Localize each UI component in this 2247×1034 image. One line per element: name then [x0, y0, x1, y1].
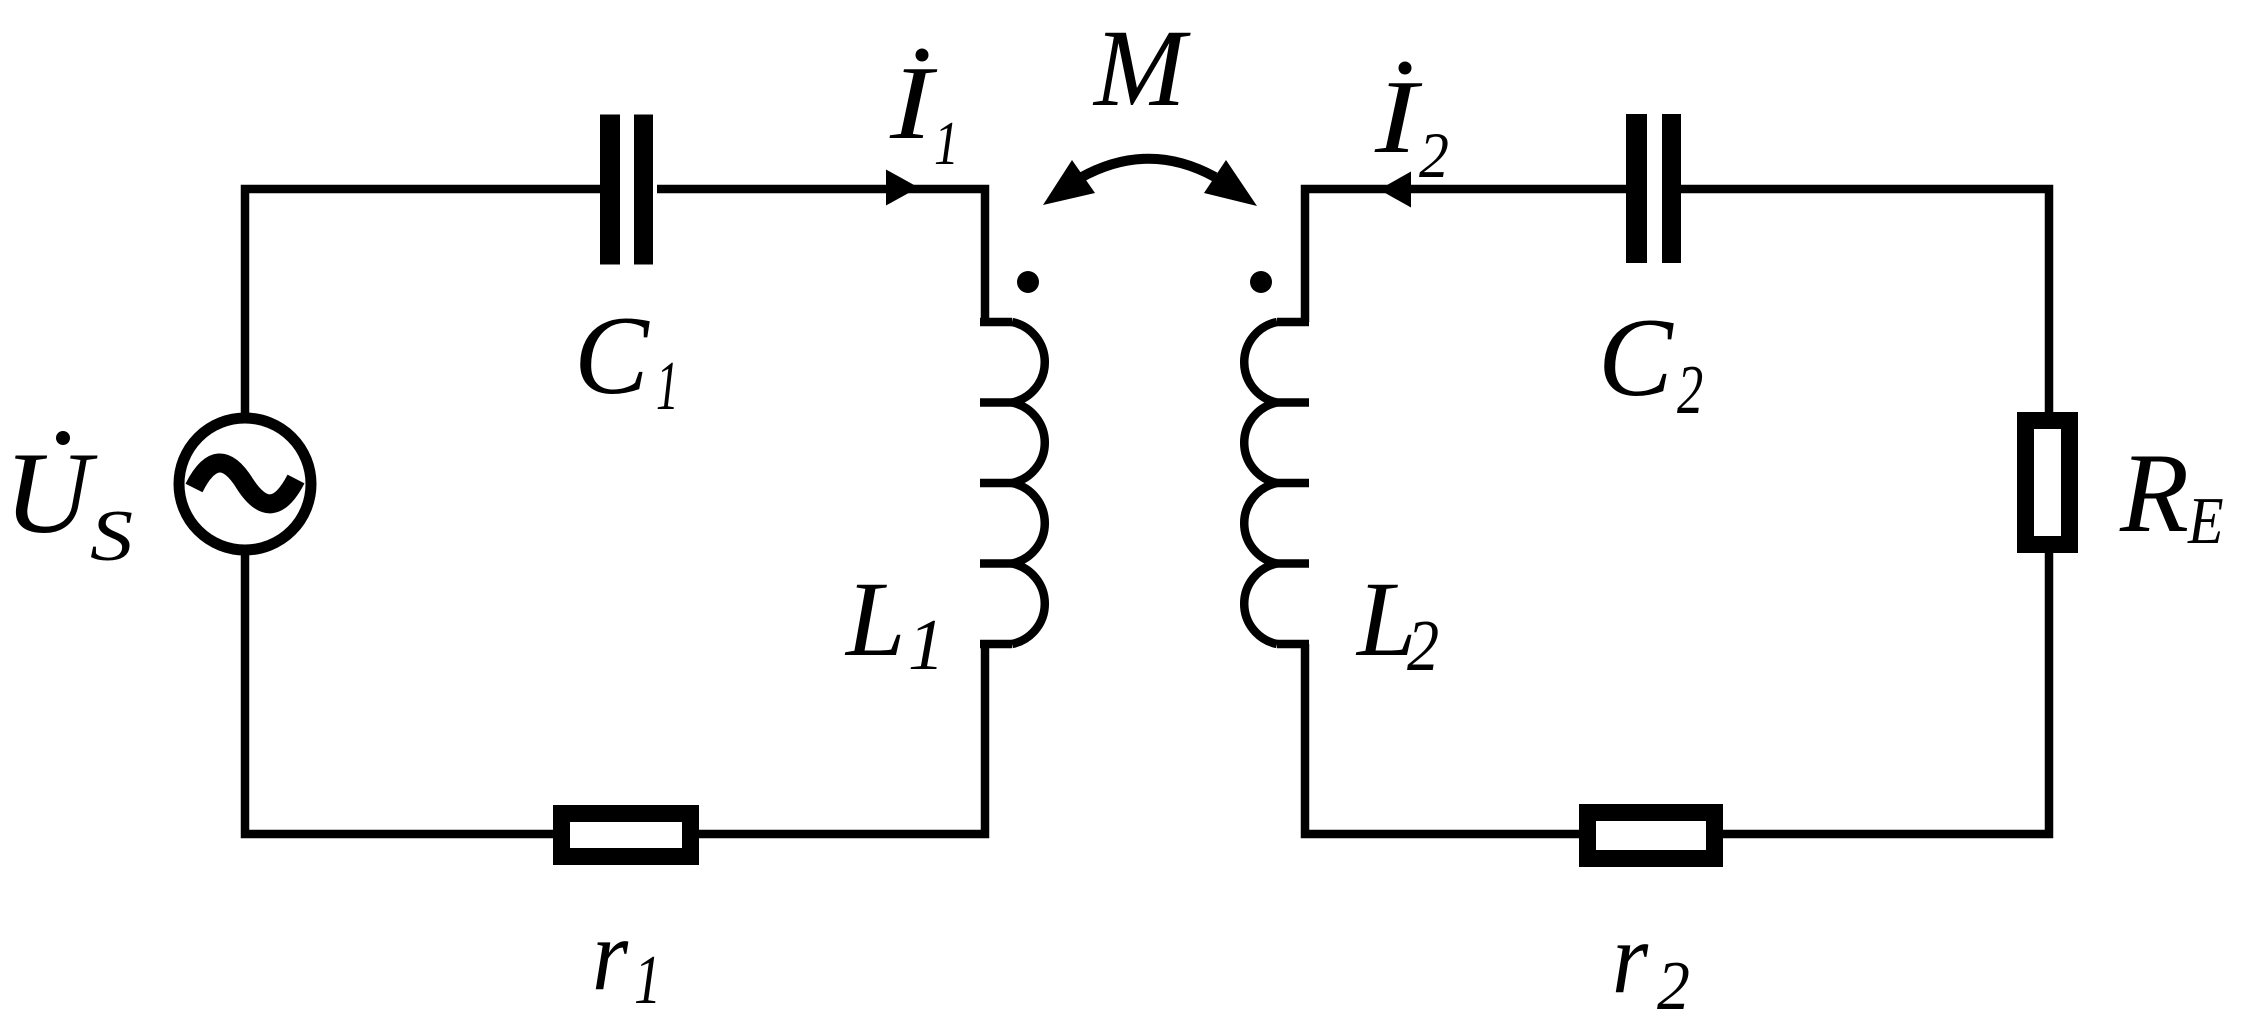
- svg-text:U: U: [4, 428, 98, 558]
- svg-text:M: M: [1092, 7, 1191, 129]
- wire C2 to top-right corner down to RE: [1680, 189, 2049, 416]
- svg-text:C: C: [574, 294, 650, 418]
- resistor r1: [562, 814, 691, 857]
- svg-text:L: L: [844, 561, 906, 679]
- capacitor C2: [1626, 114, 1681, 263]
- inductor L1: [980, 322, 1045, 644]
- svg-text:E: E: [2187, 483, 2224, 558]
- svg-text:S: S: [90, 496, 133, 576]
- wire L1 bottom to bottom-left to source bottom: [245, 551, 985, 834]
- inductor L2: [1244, 322, 1309, 644]
- svg-text:1: 1: [934, 110, 959, 178]
- source sine: [194, 463, 296, 504]
- svg-text:r: r: [592, 899, 629, 1012]
- source US circle: [179, 418, 311, 550]
- current arrow I1: [886, 170, 919, 206]
- svg-text:2: 2: [1407, 605, 1439, 686]
- svg-text:2: 2: [1657, 946, 1690, 1024]
- svg-text:I: I: [1374, 59, 1423, 175]
- resistor RE: [2026, 421, 2070, 545]
- svg-text:R: R: [2119, 431, 2189, 556]
- svg-text:1: 1: [656, 346, 679, 424]
- arrowhead right of M arc: [1204, 160, 1257, 206]
- capacitor C1: [600, 115, 653, 265]
- mutual coupling arc M: [1080, 159, 1215, 178]
- svg-text:I: I: [889, 45, 938, 161]
- wire C1 to L1 top corner: [657, 189, 985, 322]
- arrowhead left of M arc: [1043, 160, 1095, 205]
- resistor r2: [1588, 813, 1715, 859]
- coupling dot right: [1250, 271, 1272, 293]
- svg-text:r: r: [1612, 902, 1649, 1015]
- coupling dot left: [1017, 271, 1039, 293]
- svg-text:1: 1: [634, 941, 661, 1019]
- svg-text:2: 2: [1677, 352, 1703, 429]
- svg-text:1: 1: [908, 604, 945, 685]
- current arrow I2: [1379, 172, 1411, 208]
- wire RE bottom to bottom-right to L2 bottom: [1305, 549, 2049, 834]
- svg-text:C: C: [1598, 296, 1674, 420]
- wire right loop top-left corner to C2: [1305, 189, 1626, 322]
- wire left-top: source top to C1: [245, 189, 600, 417]
- svg-text:2: 2: [1419, 119, 1449, 192]
